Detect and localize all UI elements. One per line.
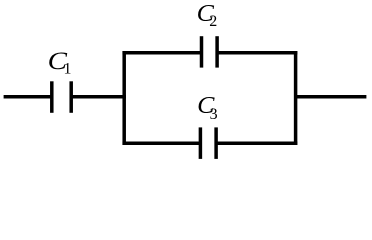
capacitor C2 (202, 36, 218, 67)
wire right lead (296, 95, 367, 99)
wire C1 to parallel block (71, 95, 126, 99)
wire top branch left segment (122, 51, 201, 55)
svg-text:2: 2 (209, 13, 217, 30)
capacitor C3 (200, 127, 216, 158)
capacitor C1 (52, 81, 71, 113)
svg-text:1: 1 (64, 60, 72, 77)
svg-text:3: 3 (210, 106, 218, 123)
label C1 (48, 47, 72, 78)
label C3 (197, 93, 218, 123)
wire right vertical of parallel block (294, 51, 298, 145)
wire left vertical of parallel block (122, 51, 126, 145)
label C2 (197, 1, 218, 30)
wire top branch right segment (217, 51, 297, 55)
wire left lead (4, 95, 52, 99)
wire bottom branch right segment (216, 141, 297, 145)
wire bottom branch left segment (122, 141, 200, 145)
